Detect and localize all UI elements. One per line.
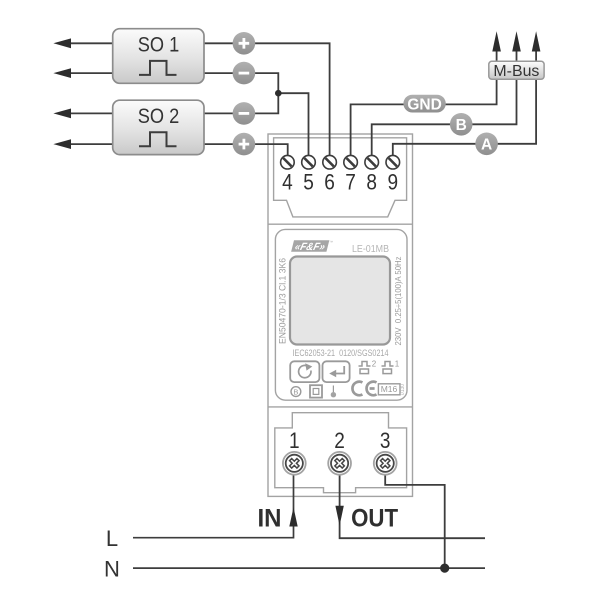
SO 2 box — [113, 100, 204, 154]
SO 1 box — [113, 29, 204, 84]
terminal 9 screw — [386, 155, 400, 169]
svg-text:7: 7 — [345, 170, 356, 195]
svg-text:OUT: OUT — [351, 505, 398, 533]
M-Bus arrow left — [496, 50, 498, 62]
wire B to terminal 8 — [372, 79, 517, 156]
svg-text:«F&F»: «F&F» — [293, 241, 326, 253]
svg-text:1: 1 — [289, 428, 300, 453]
wire terminal 3 to N — [385, 475, 445, 568]
CE mark — [352, 382, 376, 396]
minus badge SO1 — [233, 62, 256, 85]
B label — [450, 113, 473, 136]
wire L to terminal 1 — [133, 475, 294, 538]
LCD display — [290, 257, 390, 345]
pulse output 1 icon — [382, 362, 394, 374]
svg-text:EN50470-1/3 Cl.1 3K6: EN50470-1/3 Cl.1 3K6 — [277, 258, 287, 344]
svg-text:2: 2 — [372, 360, 377, 369]
svg-text:IN: IN — [258, 505, 282, 533]
svg-text:0130: 0130 — [400, 384, 406, 395]
IN arrowhead — [289, 507, 297, 526]
A label — [475, 133, 498, 156]
svg-text:6: 6 — [324, 170, 335, 195]
button enter icon — [323, 361, 350, 382]
meter body outline — [268, 134, 413, 496]
bottom terminal cover outline — [275, 413, 407, 493]
terminal 3 screw — [374, 452, 397, 475]
terminal 7 screw — [344, 155, 358, 169]
junction dot — [275, 90, 282, 97]
OUT arrowhead — [335, 506, 343, 526]
svg-text:2: 2 — [334, 428, 345, 453]
SO1 output lead bottom — [66, 72, 113, 74]
svg-text:IEC62053-21 0120/SGS0214: IEC62053-21 0120/SGS0214 — [293, 348, 389, 359]
svg-text:8: 8 — [366, 170, 377, 195]
minus badge SO2 — [233, 102, 256, 125]
button rotate icon — [290, 361, 319, 382]
M16 approval box — [378, 384, 400, 395]
GND label — [403, 95, 445, 114]
SO1 output lead top — [66, 42, 113, 44]
M-Bus arrow middle — [516, 50, 518, 62]
top terminal cover outline — [274, 138, 407, 217]
wire N line — [133, 567, 485, 569]
wire SO1 minus / SO2 minus to junction — [204, 73, 278, 113]
class B icon — [291, 387, 301, 397]
terminal 6 screw — [323, 155, 337, 169]
wire SO1 plus to terminal 6 — [204, 43, 330, 156]
svg-text:N: N — [104, 556, 120, 581]
terminal numbers 1-3 — [289, 428, 391, 453]
terminal 5 screw — [302, 155, 316, 169]
wire SO2 plus to terminal 4 — [204, 144, 288, 156]
wire GND to terminal 7 — [351, 79, 497, 156]
svg-text:5: 5 — [303, 170, 314, 195]
svg-text:B: B — [293, 387, 298, 396]
svg-text:™: ™ — [329, 240, 333, 245]
terminal 2 screw — [328, 452, 351, 475]
terminal 1 screw — [283, 452, 306, 475]
SO2 output lead top — [66, 112, 113, 114]
svg-text:230V 0.25÷5(100)A 50Hz: 230V 0.25÷5(100)A 50Hz — [393, 257, 403, 346]
svg-text:M-Bus: M-Bus — [493, 63, 539, 80]
svg-text:A: A — [481, 136, 492, 153]
front face panel — [275, 229, 407, 400]
svg-text:1: 1 — [395, 360, 400, 369]
pulse output 2 icon — [359, 362, 371, 374]
svg-text:LE-01MB: LE-01MB — [352, 244, 389, 255]
temperature icon — [332, 386, 334, 393]
svg-text:B: B — [456, 117, 467, 134]
terminal numbers 4-9 — [282, 170, 398, 195]
plus badge SO2 — [233, 133, 256, 156]
terminal 4 screw — [281, 155, 295, 169]
svg-text:4: 4 — [282, 170, 293, 195]
plus badge SO1 — [233, 32, 256, 55]
svg-text:GND: GND — [407, 96, 441, 113]
double insulation icon — [310, 385, 322, 397]
wire terminal 2 to L out — [340, 475, 485, 538]
F&F logo — [291, 240, 329, 253]
svg-text:M16: M16 — [381, 384, 398, 394]
M-Bus arrow right — [535, 50, 537, 62]
junction dot N — [440, 564, 449, 573]
terminal 8 screw — [365, 155, 379, 169]
svg-text:L: L — [106, 526, 118, 551]
svg-text:9: 9 — [388, 170, 399, 195]
SO2 output lead bottom — [66, 143, 113, 145]
svg-text:SO 1: SO 1 — [138, 34, 180, 57]
svg-text:3: 3 — [380, 428, 391, 453]
wire junction to terminal 5 — [278, 93, 308, 156]
M-Bus box — [489, 61, 544, 80]
svg-text:SO 2: SO 2 — [138, 105, 180, 128]
wire A to terminal 9 — [393, 79, 536, 156]
